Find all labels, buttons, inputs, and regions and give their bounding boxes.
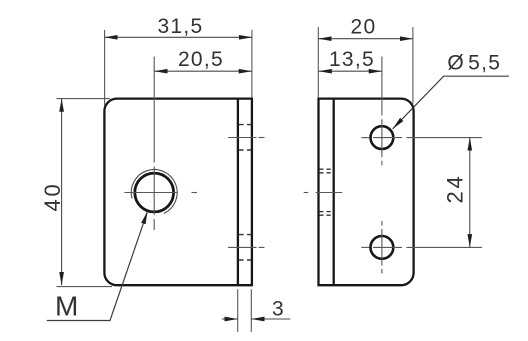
right view outline (side view of bracket) xyxy=(319,99,414,286)
horizontal centerline of hole M xyxy=(124,192,197,194)
bottom hole O5,5 xyxy=(371,236,394,259)
svg-text:3: 3 xyxy=(272,298,285,321)
dimension 40 xyxy=(40,99,112,287)
horizontal centerline of hole M in side view xyxy=(304,192,343,194)
left view outline (front view of bracket) xyxy=(104,99,252,286)
vertical centerline of hole M (also extension for 20,5) xyxy=(153,57,155,231)
vertical centerline of bottom hole xyxy=(381,221,383,274)
threaded hole M, thread arc (3/4 thin circle) xyxy=(131,170,177,214)
horizontal centerline of bottom hole (also extension for 24) xyxy=(361,246,482,248)
dimension 20 xyxy=(318,16,413,104)
svg-text:31,5: 31,5 xyxy=(157,15,203,38)
hidden thread lines of hole M in side view (upper pair) xyxy=(319,169,332,173)
dimension 3 (flange thickness) xyxy=(222,289,290,332)
threaded hole M, core circle xyxy=(135,173,174,212)
dimension 13,5 xyxy=(319,48,382,71)
leader and label O5,5 xyxy=(393,51,509,129)
svg-text:20,5: 20,5 xyxy=(178,48,224,71)
vertical centerline of top hole (also extension for 13,5) xyxy=(381,57,383,166)
hidden edge dashes, top hole in edge view xyxy=(239,125,251,150)
centerline of bottom hole through flange strip xyxy=(228,246,265,248)
svg-text:Ø 5,5: Ø 5,5 xyxy=(447,51,501,74)
leader line from label M to threaded hole xyxy=(47,211,148,320)
dimension 31,5 xyxy=(104,15,252,105)
svg-text:24: 24 xyxy=(443,173,468,203)
bend tangent line (left view flange edge) xyxy=(237,99,239,286)
svg-text:20: 20 xyxy=(351,16,377,39)
top hole O5,5 xyxy=(371,126,394,149)
svg-text:M: M xyxy=(55,291,78,322)
horizontal centerline of top hole (also extension for 24) xyxy=(361,137,482,139)
hidden thread lines of hole M in side view (lower pair) xyxy=(319,212,332,216)
svg-text:40: 40 xyxy=(40,181,65,211)
centerline of top hole through flange strip xyxy=(228,137,265,139)
dimension 24 xyxy=(443,138,470,248)
dimension 20,5 xyxy=(154,48,252,71)
svg-text:13,5: 13,5 xyxy=(329,48,375,71)
hidden edge dashes, bottom hole in edge view xyxy=(239,235,251,260)
bend tangent line (side view) xyxy=(333,99,335,286)
